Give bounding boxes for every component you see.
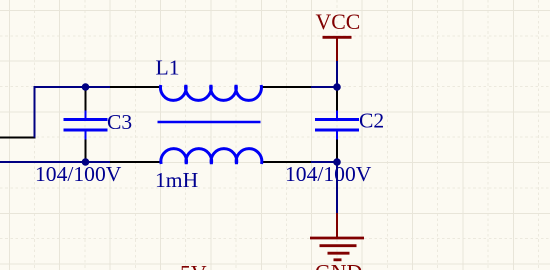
wire — [336, 61, 338, 88]
svg-text:104/100V: 104/100V — [285, 162, 372, 186]
wire — [35, 87, 111, 138]
power symbol VCC — [323, 37, 352, 61]
svg-text:104/100V: 104/100V — [35, 162, 122, 186]
junction node VCC — [333, 83, 341, 91]
svg-text:L1: L1 — [156, 56, 180, 80]
wire — [110, 86, 161, 88]
wire — [0, 137, 36, 139]
wire — [311, 86, 337, 88]
wire — [85, 138, 87, 163]
wire — [336, 87, 338, 113]
svg-text:C3: C3 — [107, 110, 132, 134]
wire — [85, 87, 87, 113]
wire — [260, 86, 311, 88]
junction node 1 — [82, 83, 90, 91]
inductor L1 winding — [160, 85, 261, 100]
junction node GND — [333, 158, 341, 166]
wire — [336, 162, 338, 214]
svg-text:1mH: 1mH — [155, 168, 198, 192]
capacitor C2 — [315, 111, 359, 140]
svg-text:GND: GND — [315, 260, 362, 270]
wire — [311, 161, 337, 163]
wire — [0, 161, 110, 163]
svg-text:VCC: VCC — [316, 10, 361, 34]
junction node 2 — [82, 158, 90, 166]
capacitor C3 — [64, 111, 108, 140]
wire — [261, 161, 311, 163]
svg-text:5V: 5V — [180, 262, 207, 270]
ground symbol — [310, 213, 364, 260]
inductor bottom winding — [161, 149, 262, 164]
wire — [336, 138, 338, 163]
svg-text:C2: C2 — [359, 109, 384, 133]
choke core line — [158, 121, 261, 124]
wire — [110, 161, 162, 163]
